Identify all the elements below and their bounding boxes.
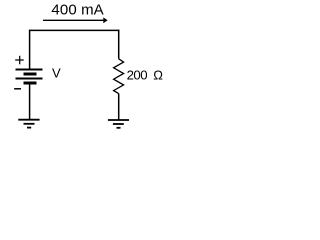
ground right (108, 120, 129, 128)
polarity - mark (14, 88, 21, 90)
battery V plate 1 (long) (16, 69, 43, 71)
battery V plate 2 (short thick) (24, 73, 37, 76)
battery V plate 4 (short thick) (24, 82, 37, 85)
wire battery positive lead (29, 30, 31, 69)
svg-text:200: 200 (127, 68, 148, 83)
label 200 Ohm (127, 67, 164, 82)
wire battery negative to ground (29, 85, 31, 121)
svg-text:400 mA: 400 mA (51, 2, 103, 19)
svg-text:V: V (52, 66, 61, 81)
resistor 200 ohm zigzag (114, 59, 124, 94)
wire top node from battery + to resistor (29, 29, 119, 31)
battery V plate 3 (long) (16, 78, 43, 80)
current direction arrow (43, 17, 108, 23)
wire resistor top lead (118, 30, 120, 59)
polarity + mark (15, 56, 24, 65)
wire resistor to ground (118, 94, 120, 121)
svg-text:Ω: Ω (153, 67, 163, 82)
ground left (18, 120, 39, 128)
